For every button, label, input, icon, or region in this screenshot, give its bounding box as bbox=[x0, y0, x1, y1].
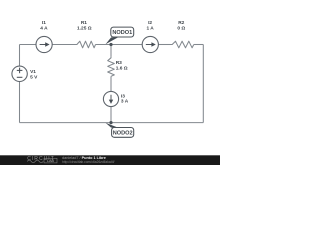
svg-text:R1: R1 bbox=[81, 20, 87, 26]
svg-text:5 V: 5 V bbox=[30, 75, 38, 81]
svg-text:V1: V1 bbox=[30, 69, 36, 75]
svg-text:3 A: 3 A bbox=[121, 99, 129, 105]
svg-text:R3: R3 bbox=[116, 60, 122, 66]
svg-text:1.6 Ω: 1.6 Ω bbox=[116, 65, 128, 71]
svg-text:I1: I1 bbox=[42, 20, 46, 26]
svg-text:LAB: LAB bbox=[47, 159, 54, 163]
svg-text:I3: I3 bbox=[121, 93, 125, 99]
svg-text:I2: I2 bbox=[148, 20, 152, 26]
svg-text:NODO1: NODO1 bbox=[112, 30, 132, 36]
svg-text:NODO2: NODO2 bbox=[113, 131, 133, 137]
svg-text:R2: R2 bbox=[178, 20, 184, 26]
svg-text:1 A: 1 A bbox=[146, 25, 154, 31]
svg-text:4 A: 4 A bbox=[40, 25, 48, 31]
svg-text:0 Ω: 0 Ω bbox=[177, 25, 185, 31]
svg-text:http://circuitlab.com/c6a26zd6: http://circuitlab.com/c6a26zd6zka4f/ bbox=[62, 160, 114, 164]
svg-text:1.25 Ω: 1.25 Ω bbox=[77, 25, 92, 31]
